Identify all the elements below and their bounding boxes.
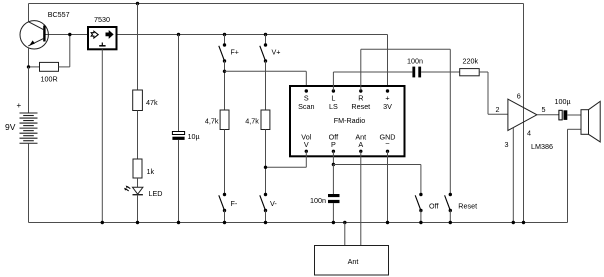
svg-text:+: + [17,101,22,110]
svg-text:BC557: BC557 [48,10,70,19]
svg-text:Scan: Scan [298,102,314,111]
svg-text:100n: 100n [407,57,423,66]
svg-text:FM-Radio: FM-Radio [334,116,366,125]
svg-text:F-: F- [231,199,238,208]
svg-text:100R: 100R [41,75,58,84]
svg-text:3: 3 [505,140,509,149]
svg-text:5: 5 [542,105,546,114]
svg-text:9V: 9V [5,122,16,132]
svg-text:Reset: Reset [458,202,477,211]
svg-text:−: − [385,139,390,148]
svg-text:10µ: 10µ [188,132,200,141]
svg-text:4,7k: 4,7k [245,117,259,126]
svg-text:7530: 7530 [94,15,110,24]
svg-text:Reset: Reset [351,102,370,111]
svg-text:P: P [331,140,336,149]
svg-text:4,7k: 4,7k [205,117,219,126]
svg-text:V-: V- [270,199,277,208]
svg-text:100µ: 100µ [555,97,571,106]
svg-text:LM386: LM386 [531,142,553,151]
svg-text:1k: 1k [147,167,155,176]
svg-text:4: 4 [527,129,531,138]
svg-text:220k: 220k [463,57,479,66]
svg-text:100n: 100n [310,196,326,205]
svg-text:F+: F+ [231,50,239,57]
svg-text:V+: V+ [272,48,281,57]
svg-text:47k: 47k [146,98,158,107]
svg-text:LED: LED [149,189,163,198]
svg-text:6: 6 [517,92,521,101]
svg-text:2: 2 [496,105,500,114]
svg-text:A: A [358,140,363,149]
svg-text:LS: LS [329,102,338,111]
svg-text:Off: Off [429,202,438,211]
svg-text:3V: 3V [383,102,392,111]
svg-text:Ant: Ant [348,257,359,266]
svg-text:V: V [304,140,309,149]
